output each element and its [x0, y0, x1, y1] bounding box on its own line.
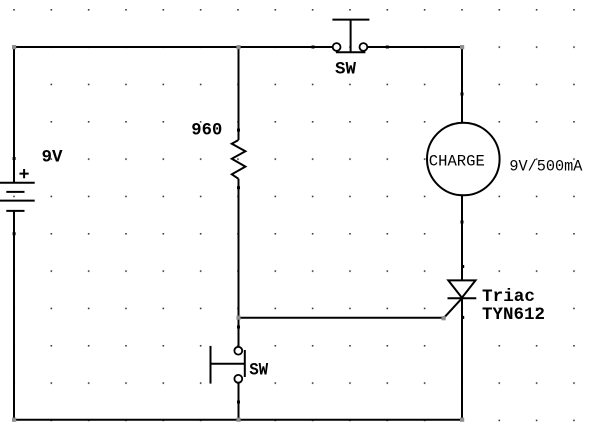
junction marker bottom-left — [12, 418, 16, 422]
resistor pin dot bottom — [237, 186, 240, 189]
switch SW bottom pin dot top — [237, 326, 240, 329]
svg-text:TYN612: TYN612 — [482, 305, 545, 325]
wire top left segment — [14, 46, 333, 48]
junction marker top-middle — [236, 45, 240, 49]
lamp CHARGE — [427, 123, 500, 196]
wire right middle (lamp to triac) — [461, 196, 463, 281]
svg-text:9V/500mA: 9V/500mA — [509, 158, 582, 176]
junction marker gate-bend — [442, 316, 446, 320]
triac pin dot MT2 — [461, 265, 464, 268]
switch SW top pin dot right — [386, 46, 389, 49]
triac Q1 TYN612 — [444, 280, 477, 318]
svg-text:9V: 9V — [42, 148, 63, 168]
wire gate horizontal — [239, 317, 444, 319]
switch SW top pin dot left — [312, 46, 315, 49]
wire left side lower — [13, 211, 15, 421]
svg-text:SW: SW — [249, 361, 268, 381]
junction marker bottom-middle — [236, 418, 240, 422]
wire middle top (junction to resistor) — [238, 47, 240, 140]
battery B1 9V — [0, 169, 35, 211]
svg-text:CHARGE: CHARGE — [429, 153, 485, 171]
battery pin dot bottom — [13, 232, 16, 235]
junction marker bottom-right — [460, 418, 464, 422]
wire right lower (triac to bottom rail) — [461, 298, 463, 420]
junction marker top-left — [12, 45, 16, 49]
resistor pin dot top — [237, 129, 240, 132]
wire right upper (top rail to lamp) — [461, 46, 463, 123]
junction marker top-right — [460, 45, 464, 49]
svg-text:SW: SW — [335, 60, 356, 80]
wire left side upper — [13, 46, 15, 183]
lamp pin dot top — [461, 93, 464, 96]
junction marker gate-left — [236, 316, 240, 320]
triac pin dot MT1 — [461, 316, 464, 319]
wire top right segment — [367, 46, 462, 48]
resistor R1 960 — [232, 140, 246, 179]
wire middle (resistor to gate junction to switch) — [238, 179, 240, 347]
wire middle bottom (switch to bottom rail) — [238, 382, 240, 419]
pushbutton switch SW bottom — [211, 346, 245, 384]
lamp pin dot bottom — [461, 221, 464, 224]
battery pin dot top — [13, 157, 16, 160]
wire bottom rail — [14, 419, 462, 421]
pushbutton switch SW top — [332, 20, 369, 53]
svg-text:960: 960 — [191, 121, 222, 141]
switch SW bottom pin dot bottom — [237, 401, 240, 404]
